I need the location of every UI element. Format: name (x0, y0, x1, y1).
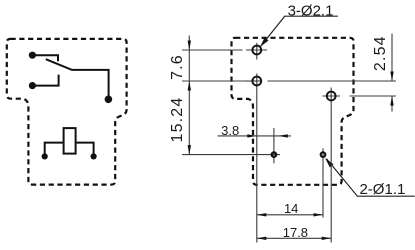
leader arrowhead at hole H1 (260, 37, 268, 46)
arrow right tip 14 (314, 213, 324, 216)
svg-text:14: 14 (284, 201, 298, 216)
arrow down tip row2 (390, 72, 393, 82)
hole H2 (2.1mm) (246, 80, 262, 82)
switch arm wire to common terminal (46, 59, 109, 96)
PCB layout dashed outline (right drawing) (232, 38, 354, 185)
svg-text:3-Ø2.1: 3-Ø2.1 (288, 3, 334, 20)
extension line row3 (hole3 level, y=96) (350, 95, 397, 97)
hole H4 (small, 1.1mm) (273, 128, 275, 163)
leader line for 3-Ø2.1 (260, 16, 338, 47)
dimension 14 line (257, 214, 323, 216)
svg-text:17.8: 17.8 (283, 225, 308, 240)
leader arrowhead at hole H5 (325, 158, 333, 167)
hole H5 (small, 1.1mm) (322, 148, 324, 217)
svg-text:7.6: 7.6 (169, 54, 186, 80)
svg-text:2-Ø1.1: 2-Ø1.1 (359, 181, 405, 198)
arrow up at row2 (188, 81, 191, 91)
extension line row2 long (hole2 level, y=81) (182, 80, 262, 82)
NO contact hook wire (32, 75, 58, 86)
hole H1 (top, 2.1mm) (246, 49, 267, 51)
arrow up tip row3 (390, 96, 393, 106)
contact dot NO (lower-left) (29, 82, 36, 89)
arrow right tip 17.8 (322, 237, 332, 240)
coil terminal dot left (42, 153, 48, 159)
right dimension 2.54 vertical line lower segment (391, 96, 393, 112)
arrow down at row1 (188, 41, 191, 51)
dimension 17.8 line (257, 237, 331, 239)
coil terminal dot right (91, 153, 97, 159)
relay body dashed outline (left schematic) (7, 39, 127, 185)
arrow left tip 17.8 (257, 237, 267, 240)
coil lead wire left (45, 143, 64, 154)
right dimension 2.54 vertical line upper segment (391, 34, 393, 82)
extension line row4 (small holes level, y=154.6) (182, 154, 280, 156)
coil K1 rectangle (64, 128, 76, 154)
coil lead wire right (76, 143, 94, 154)
arrow left tip 14 (257, 213, 267, 216)
dimension 3.8 line (218, 135, 291, 137)
contact dot NC (upper-left) (29, 52, 36, 59)
extension line row1 (hole1 level, y=50) (182, 49, 243, 51)
arrow right tip at x=257 (247, 134, 256, 137)
left dimension line (7.6 / 15.24) (188, 36, 190, 155)
common terminal dot (105, 96, 113, 104)
svg-text:2.54: 2.54 (372, 35, 389, 71)
svg-text:3.8: 3.8 (221, 123, 239, 138)
hole H3 (right, 2.1mm) (323, 95, 341, 97)
NC contact hook wire (32, 55, 58, 61)
vertical extension line x=331 down to 17.8 dim (330, 105, 332, 243)
vertical extension line x=257 down to bottom dims (256, 89, 258, 243)
leader line for 2-Ø1.1 (327, 159, 415, 196)
svg-text:15.24: 15.24 (169, 96, 186, 142)
arrow down at row4 (188, 145, 191, 155)
arrow left tip at x=278 (278, 134, 288, 137)
